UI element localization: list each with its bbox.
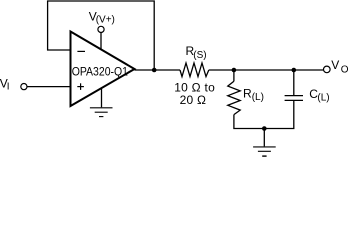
terminal VO [324, 66, 331, 73]
wire RL bottom lead, bottom rail, CL bottom lead [234, 101, 294, 129]
wire input VI to noninverting input [27, 86, 70, 88]
label RS value [174, 80, 215, 107]
svg-text:(L): (L) [317, 92, 329, 103]
ground op-amp V- [90, 108, 113, 117]
svg-text:(V+): (V+) [96, 15, 115, 26]
op-amp U1 OPA320-Q1 [71, 32, 135, 107]
label VO [331, 58, 349, 75]
svg-text:I: I [7, 82, 10, 93]
node junction ground rail [262, 126, 267, 131]
terminal V(V+) [98, 26, 104, 32]
capacitor CL [285, 96, 303, 101]
svg-text:O: O [341, 64, 349, 75]
node junction CL [292, 68, 297, 73]
label VI [0, 77, 9, 93]
wire RS right to VO terminal [209, 69, 324, 71]
label V(V+) [89, 9, 115, 25]
wire RL top lead [233, 70, 235, 81]
label CL [309, 87, 329, 103]
resistor RS [180, 63, 209, 77]
label RS [186, 44, 207, 61]
node junction RL [232, 68, 237, 73]
resistor RL [228, 81, 240, 114]
terminal VI [21, 84, 27, 90]
ground load [253, 147, 276, 156]
label RL [243, 86, 264, 103]
wire V- stub to ground [101, 88, 103, 107]
wire feedback loop output to inverting input [48, 1, 155, 70]
wire CL top lead [293, 70, 295, 95]
node junction output [152, 68, 157, 73]
wire ground stub load [263, 129, 265, 147]
svg-text:20 Ω: 20 Ω [180, 93, 206, 107]
svg-text:OPA320-Q1: OPA320-Q1 [72, 65, 129, 79]
wire V+ supply stub [100, 33, 102, 50]
svg-text:(L): (L) [252, 92, 264, 103]
svg-text:(S): (S) [193, 50, 206, 61]
svg-text:R: R [243, 86, 252, 100]
wire op-amp output [135, 69, 181, 71]
svg-text:V: V [331, 58, 339, 72]
